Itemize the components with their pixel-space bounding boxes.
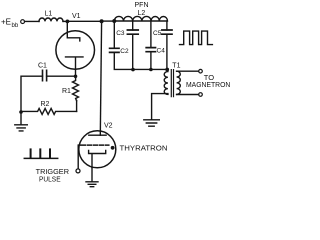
- wire PFN branch2 upper: [132, 21, 134, 30]
- waveform output pulse train: [180, 31, 213, 44]
- node PFN input: [112, 19, 116, 23]
- transformer T1 secondary winding: [177, 71, 181, 94]
- gas-filled indicator dot: [111, 146, 115, 150]
- node V1 cathode junction: [74, 75, 78, 79]
- svg-text:C3: C3: [116, 30, 125, 37]
- node at V1 plate: [66, 20, 70, 24]
- svg-text:bb: bb: [12, 23, 19, 29]
- tube V2 grid (dashed): [79, 144, 109, 146]
- wire L1 to node V1: [63, 20, 67, 22]
- wire PFN branch4 lower: [166, 34, 168, 69]
- svg-text:MAGNETRON: MAGNETRON: [186, 80, 230, 89]
- svg-text:T1: T1: [172, 63, 180, 70]
- terminal +Ebb: [21, 20, 25, 24]
- tube V2 envelope: [79, 131, 116, 168]
- svg-text:L1: L1: [45, 10, 53, 17]
- transformer T1 primary winding: [164, 70, 168, 95]
- svg-text:PULSE: PULSE: [39, 175, 61, 184]
- svg-text:+E: +E: [1, 17, 11, 26]
- wire bottom bus branch3 to T1: [133, 68, 167, 70]
- svg-text:PFN: PFN: [135, 2, 149, 9]
- inductor L2: [114, 16, 167, 21]
- capacitor C3: [127, 30, 138, 34]
- wire PFN branch2 lower: [132, 34, 134, 69]
- wire V2 plate lead: [100, 21, 101, 135]
- wire V2 cathode to ground: [91, 168, 93, 182]
- svg-text:R2: R2: [41, 101, 50, 108]
- inductor L1: [39, 18, 63, 21]
- ground G1: [15, 112, 27, 131]
- svg-text:R1: R1: [62, 88, 71, 95]
- wire R2 to R1 bottom: [76, 101, 78, 112]
- tube V2 cathode: [89, 150, 106, 167]
- svg-text:V2: V2: [104, 123, 113, 130]
- label TRIGGER PULSE: [36, 167, 70, 184]
- wire PFN branch1 lower: [114, 52, 133, 69]
- node branch2 bottom: [131, 68, 135, 72]
- tube V1 envelope: [56, 31, 95, 70]
- wire PFN branch4 upper: [166, 21, 168, 30]
- tube V2 plate: [89, 134, 106, 136]
- wire PFN branch1 upper: [113, 21, 115, 48]
- ground G2: [86, 182, 98, 187]
- svg-text:THYRATRON: THYRATRON: [120, 146, 168, 153]
- svg-text:C4: C4: [157, 47, 166, 54]
- capacitor C2: [110, 48, 119, 52]
- wire top bus under L2: [114, 20, 167, 22]
- wire PFN branch3 upper: [150, 21, 152, 48]
- label +Ebb: [1, 17, 19, 29]
- svg-text:C5: C5: [153, 30, 162, 37]
- tube V1 plate: [67, 21, 80, 41]
- resistor R2: [21, 108, 77, 114]
- wire terminal to L1: [25, 20, 39, 22]
- terminal magnetron top: [199, 69, 203, 73]
- wire V2 grid lead down: [77, 145, 79, 169]
- resistor R1: [73, 76, 79, 100]
- capacitor C1: [43, 70, 47, 80]
- wire top bus V1 node to V2 node: [67, 20, 101, 22]
- svg-text:C1: C1: [38, 62, 47, 69]
- svg-text:V1: V1: [72, 13, 81, 20]
- wire top bus V2 node to PFN node: [101, 20, 114, 22]
- wire secondary top to terminal: [177, 70, 199, 72]
- label TO MAGNETRON: [186, 73, 230, 89]
- wire T1 primary bottom to ground: [152, 94, 168, 120]
- node branch3 bottom: [149, 68, 153, 72]
- wire secondary bottom to terminal: [177, 94, 199, 96]
- svg-text:C2: C2: [120, 48, 129, 55]
- tube V1 cathode: [66, 57, 84, 77]
- waveform trigger pulses: [24, 157, 57, 159]
- terminal trigger input: [76, 169, 80, 173]
- ground G3: [144, 120, 160, 126]
- terminal magnetron bottom: [199, 93, 203, 97]
- capacitor C4: [146, 48, 155, 52]
- wire PFN branch3 lower: [150, 52, 152, 70]
- wire cathode junction to C1: [47, 75, 76, 77]
- transformer T1 core: [171, 70, 173, 97]
- node PFN output / T1 primary top: [165, 68, 169, 72]
- wire C1 to left rail: [21, 76, 43, 112]
- node V2 plate branch: [100, 19, 104, 23]
- capacitor C5: [162, 30, 172, 34]
- node left rail R2 junction: [19, 110, 23, 114]
